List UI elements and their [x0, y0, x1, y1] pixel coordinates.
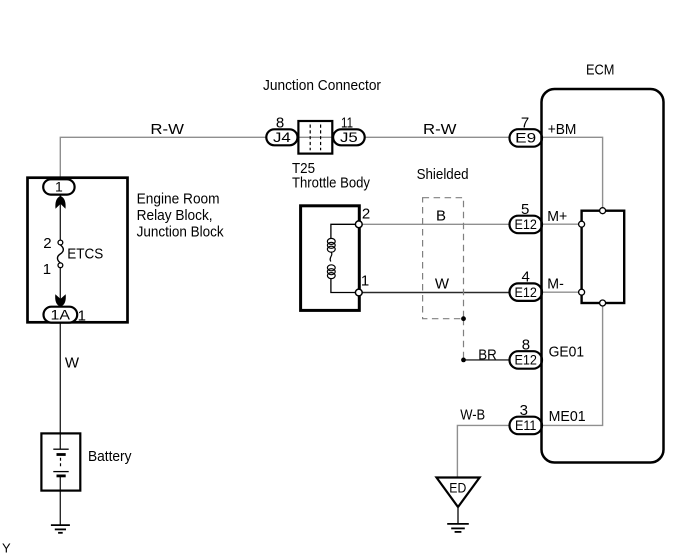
engine room relay block box — [28, 178, 128, 323]
svg-text:B: B — [436, 208, 446, 225]
node circle bracket bottom — [600, 300, 606, 306]
wire inside relay block lower — [59, 267, 61, 307]
svg-text:Relay Block,: Relay Block, — [137, 207, 213, 224]
svg-text:R-W: R-W — [423, 121, 457, 138]
svg-text:ED: ED — [449, 480, 466, 496]
svg-text:E12: E12 — [514, 352, 537, 368]
junction connector square — [298, 121, 332, 154]
oval J4 — [266, 129, 297, 145]
svg-text:Junction Block: Junction Block — [137, 223, 224, 240]
svg-text:W: W — [65, 355, 80, 372]
svg-text:1: 1 — [78, 308, 86, 325]
junction connector dashed pin line right — [320, 125, 322, 151]
battery plate long top — [53, 448, 68, 450]
fuse ETCS squiggle — [57, 245, 63, 263]
junction connector dashed pin line left — [309, 125, 311, 151]
svg-text:ME01: ME01 — [549, 408, 586, 425]
motor coil wire bottom — [331, 279, 356, 293]
motor driver bracket box inside ECM — [582, 211, 625, 303]
svg-text:W: W — [435, 275, 450, 292]
ground symbol ED — [447, 523, 469, 525]
node circle bracket M- — [579, 289, 585, 295]
fuse ETCS terminal 2 circle — [58, 240, 63, 245]
wire BR to GE01 — [464, 359, 510, 361]
svg-text:Engine Room: Engine Room — [137, 190, 220, 207]
svg-text:BR: BR — [478, 346, 497, 363]
throttle pin 1 circle — [355, 289, 362, 296]
fuse ETCS terminal 1 circle — [58, 263, 63, 268]
battery dashed middle — [60, 458, 62, 469]
svg-text:W-B: W-B — [460, 406, 485, 423]
junction dot BR start — [461, 358, 466, 363]
wire ME01 inside ECM — [542, 303, 603, 425]
svg-text:J4: J4 — [273, 129, 291, 145]
wire battery to ground — [59, 476, 61, 525]
svg-text:2: 2 — [43, 235, 51, 252]
svg-text:E9: E9 — [515, 130, 536, 146]
oval 1A — [44, 307, 78, 323]
wire W from 1A to battery — [59, 318, 61, 449]
wire +BM inside ECM from E9 to bracket top — [542, 137, 603, 210]
svg-text:1: 1 — [55, 179, 63, 195]
junction dot shield corner — [461, 316, 466, 321]
svg-text:Shielded: Shielded — [417, 166, 469, 183]
dashed shield drain segment — [463, 319, 465, 360]
svg-text:1A: 1A — [51, 306, 71, 322]
oval 1 relay block — [43, 179, 74, 194]
wire W from throttle pin 1 to E12 — [359, 292, 510, 294]
motor coil loops upper — [327, 238, 335, 244]
svg-text:GE01: GE01 — [549, 343, 585, 360]
arrow down into oval 1A — [55, 294, 66, 307]
svg-text:E11: E11 — [515, 417, 537, 433]
svg-text:Throttle Body: Throttle Body — [292, 175, 370, 192]
oval E11 ME01 — [510, 417, 543, 435]
throttle pin 2 circle — [355, 221, 362, 228]
throttle body box T25 — [301, 206, 360, 311]
motor coil loops lower — [327, 265, 335, 271]
svg-text:ECM: ECM — [586, 62, 615, 79]
oval J5 — [333, 129, 365, 145]
ECM box U1 — [542, 89, 664, 463]
svg-text:Y: Y — [2, 541, 11, 555]
svg-text:2: 2 — [362, 206, 370, 223]
wire M- inside ECM — [542, 291, 582, 293]
ED ground triangle — [437, 478, 480, 508]
node circle bracket M+ — [579, 221, 585, 227]
wire R-W rail from relay block to E9 — [60, 137, 509, 180]
ground symbol battery — [51, 524, 70, 526]
oval E9 — [510, 129, 543, 147]
oval E12 M- — [510, 283, 543, 301]
node circle bracket top — [600, 208, 606, 214]
svg-text:R-W: R-W — [150, 121, 184, 138]
battery box — [41, 433, 80, 490]
svg-text:Junction Connector: Junction Connector — [263, 77, 381, 94]
svg-text:E12: E12 — [514, 216, 537, 232]
svg-text:1: 1 — [361, 272, 369, 289]
oval E12 M+ — [510, 216, 543, 234]
svg-text:+BM: +BM — [548, 121, 577, 138]
battery plate short thick — [57, 453, 66, 456]
motor coil wire top — [331, 224, 356, 238]
svg-text:ETCS: ETCS — [67, 246, 103, 263]
wire inside relay block upper — [59, 194, 61, 241]
battery plate short thick lower — [57, 474, 66, 477]
oval E12 GE01 — [510, 351, 543, 369]
motor coil link — [330, 252, 332, 262]
arrow up into oval 1 — [55, 196, 65, 209]
svg-text:1: 1 — [43, 261, 51, 278]
svg-text:M-: M- — [547, 275, 564, 292]
svg-text:M+: M+ — [547, 208, 567, 225]
wire M+ inside ECM — [542, 223, 582, 225]
shielded dashed box — [423, 198, 464, 319]
wire ED triangle to ground — [457, 507, 459, 524]
svg-text:J5: J5 — [340, 129, 358, 145]
wire W-B from E11 to ED ground triangle — [457, 425, 509, 477]
svg-text:Battery: Battery — [88, 448, 132, 465]
svg-text:E12: E12 — [514, 284, 537, 300]
wire B from throttle pin 2 to E12 — [359, 223, 510, 225]
battery plate long lower — [53, 471, 68, 473]
